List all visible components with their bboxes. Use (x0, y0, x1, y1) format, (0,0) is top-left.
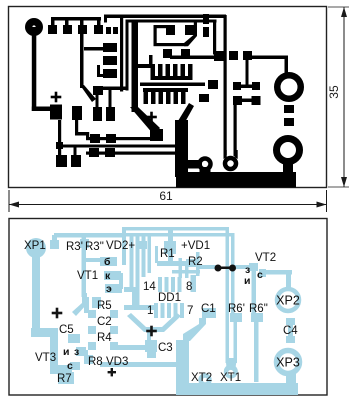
wire elbow to pad (32, 107, 55, 112)
svg-text:DD1: DD1 (158, 292, 181, 304)
bus2 right drop (213, 20, 216, 55)
dim 61 (8, 190, 10, 212)
wire y87 (98, 87, 127, 91)
ground bar (176, 172, 296, 188)
svg-text:C3: C3 (158, 342, 173, 354)
donut1 (200, 159, 211, 170)
C1 pad (202, 308, 216, 318)
svg-text:R8: R8 (88, 356, 103, 368)
loop right line (234, 104, 237, 156)
loop left line (224, 15, 227, 155)
bus1 top (104, 15, 226, 19)
VT2 с wire (259, 269, 266, 277)
svg-text:с: с (67, 360, 73, 372)
ring XP3 copper (277, 139, 300, 162)
dim 35 (343, 7, 345, 187)
svg-text:XT2: XT2 (191, 372, 212, 384)
thin wire y138 (86, 137, 152, 140)
XT1 loop (226, 227, 230, 363)
svg-text:VT2: VT2 (255, 252, 276, 264)
svg-text:и: и (244, 275, 250, 287)
donut bar link (184, 160, 202, 169)
XP2 ring (277, 289, 299, 311)
VT2 з pad (249, 263, 258, 271)
svg-text:XP1: XP1 (24, 240, 46, 252)
V bus under DD1 (127, 313, 181, 332)
XP3 ring (277, 351, 300, 374)
svg-text:VT3: VT3 (35, 352, 56, 364)
bus1 left drop (120, 15, 123, 92)
branch down x85 (82, 235, 87, 297)
polarity mark + C5 (52, 312, 63, 315)
bar pads center (93, 107, 102, 121)
pads E (163, 49, 172, 58)
svg-text:XT1: XT1 (220, 372, 241, 384)
top bus long (122, 227, 229, 231)
wire down from L1 (58, 120, 61, 156)
svg-text:7: 7 (187, 305, 193, 317)
pads D top (166, 25, 175, 35)
svg-text:R4: R4 (97, 332, 112, 344)
svg-text:C5: C5 (59, 324, 74, 336)
R8/VD3 wire (100, 362, 178, 367)
big pad P1 (25, 18, 43, 36)
R6'' wire down (254, 320, 259, 382)
R6' pad (230, 313, 242, 322)
bus2 (126, 20, 217, 23)
svg-text:XP2: XP2 (276, 294, 300, 308)
board outline top (9, 7, 327, 188)
svg-text:R6": R6" (249, 303, 268, 315)
long wire down x81 (80, 33, 84, 88)
pad A3 (71, 155, 81, 167)
plus mark center (146, 116, 157, 119)
VT2 и wire down (252, 269, 257, 316)
C4 pads (286, 318, 295, 325)
VD2 pads (139, 241, 147, 249)
DD1 pin wires up (172, 270, 200, 274)
pad G (208, 80, 218, 89)
thin wire y145 (56, 142, 63, 149)
svg-text:R5: R5 (97, 300, 112, 312)
svg-text:R1: R1 (160, 248, 175, 260)
DD1 left stubs (124, 287, 137, 292)
XP3 stem (286, 374, 296, 388)
svg-text:з: з (74, 346, 79, 358)
wire y57 (170, 56, 218, 60)
bus down bundle (122, 227, 126, 265)
svg-text:14: 14 (143, 281, 156, 293)
wire from P1 down (32, 27, 37, 111)
thick trunk (175, 120, 188, 177)
R1 pad (164, 241, 176, 254)
R1 to R2 wire (168, 252, 173, 265)
svg-text:C4: C4 (283, 325, 298, 337)
R3 bus (54, 233, 125, 238)
XT2 pad (201, 376, 210, 385)
thin wire y152 (86, 152, 176, 155)
svg-text:и: и (63, 346, 69, 358)
svg-text:8: 8 (186, 281, 192, 293)
jumper wire trace (197, 265, 218, 269)
pads between rings (284, 105, 294, 113)
VT3 pads (76, 347, 86, 356)
polarity mark + VD3 (108, 371, 116, 373)
pad A1 (50, 105, 62, 120)
svg-text:+VD1: +VD1 (181, 240, 210, 252)
blue trunk (176, 340, 189, 395)
svg-text:с: с (257, 269, 263, 281)
pad row mid right (199, 94, 209, 102)
top-left bus (51, 17, 101, 21)
wire y84 (140, 83, 205, 87)
ring XP2 copper (277, 75, 301, 99)
VT1 pads (100, 257, 117, 266)
svg-text:R2: R2 (188, 256, 203, 268)
svg-text:R3": R3" (85, 241, 104, 253)
plus mark left (51, 96, 62, 99)
R3' pad (50, 240, 59, 249)
U trace (154, 25, 168, 28)
svg-text:б: б (104, 256, 111, 268)
diagonal wire right (178, 103, 194, 124)
svg-text:к: к (105, 270, 111, 282)
pad C1 (93, 86, 103, 95)
R7 pad (58, 372, 74, 384)
svg-text:1: 1 (147, 305, 153, 317)
svg-text:35: 35 (327, 85, 341, 99)
svg-text:э: э (106, 283, 112, 295)
XP1 pad (26, 238, 46, 258)
polarity mark + C3 (146, 330, 157, 333)
bar pad L2 (72, 106, 82, 120)
DD1 pins bottom row (154, 303, 158, 318)
svg-text:C1: C1 (201, 303, 216, 315)
diagonal wire left (130, 107, 160, 135)
svg-text:VD3: VD3 (106, 356, 128, 368)
pad F (214, 51, 224, 61)
svg-text:61: 61 (159, 189, 173, 203)
VT3 branch elbow (31, 328, 58, 337)
R5 pads (92, 297, 101, 308)
svg-text:VD2+: VD2+ (106, 240, 135, 252)
pad row B (48, 25, 57, 34)
R6'' pad (251, 313, 263, 322)
svg-text:VT1: VT1 (77, 270, 98, 282)
svg-text:XP3: XP3 (276, 356, 300, 370)
wire to ring1 (250, 56, 288, 60)
R2 pad (186, 259, 196, 267)
wire elbow from L2 (75, 120, 78, 135)
middle pads stack (103, 43, 117, 52)
donut2 (225, 158, 236, 169)
blue ground bar (176, 383, 298, 395)
C5 pads (68, 334, 80, 343)
C1 wire to trunk (183, 318, 206, 341)
pad A2 (56, 155, 67, 167)
XP1 wire down (32, 248, 40, 330)
svg-text:R6': R6' (228, 303, 245, 315)
R3'' pad (80, 239, 89, 248)
IC comb row B (143, 88, 188, 92)
thick bus vertical (132, 21, 139, 112)
DD1 pins top row (158, 277, 162, 292)
R4/C2 pad columns (88, 310, 96, 318)
wire jumper (black) (215, 265, 237, 272)
right cluster pads (229, 51, 238, 60)
svg-text:R7: R7 (57, 373, 72, 385)
pad H (150, 129, 163, 141)
IC comb row A (151, 64, 156, 78)
svg-text:C2: C2 (97, 316, 112, 328)
svg-text:R3': R3' (66, 241, 83, 253)
C3 pad (145, 340, 157, 352)
